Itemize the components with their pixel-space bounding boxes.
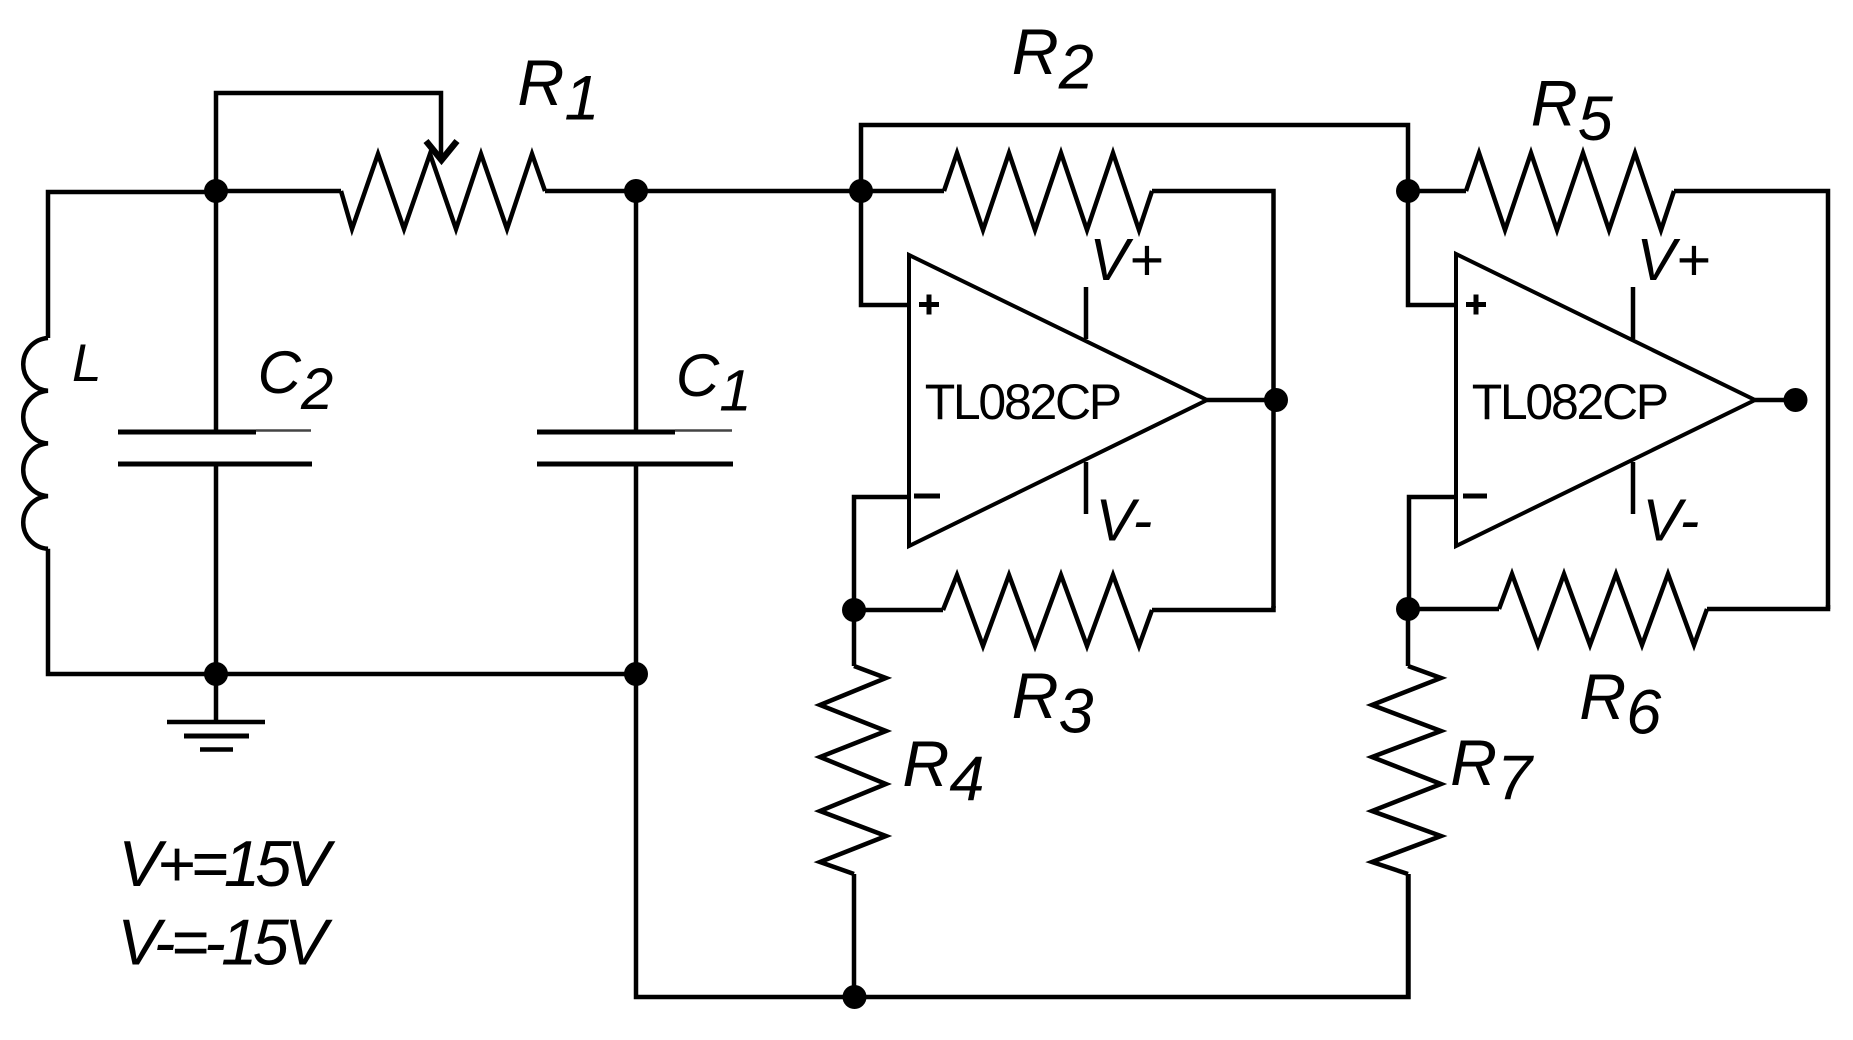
svg-text:TL082CP: TL082CP <box>1472 374 1667 430</box>
resistor R2 zigzag <box>944 153 1152 230</box>
op-amp U1 triangle <box>909 255 1207 546</box>
node E junction dot <box>849 179 873 203</box>
wire bottom rail from node D to R7 <box>636 674 1409 997</box>
wire node F to R4 top lead <box>852 610 857 666</box>
op-amp U2 V- pin <box>1631 462 1636 514</box>
capacitor C2 top plate <box>118 430 256 435</box>
svg-text:V-: V- <box>1643 488 1700 554</box>
wire op-amp U2 output <box>1755 398 1790 403</box>
wire R6 right lead to right column <box>1707 605 1828 609</box>
wire op-amp U1 output <box>1207 398 1274 403</box>
svg-text:R7: R7 <box>1450 726 1534 814</box>
resistor R6 zigzag <box>1499 574 1707 645</box>
resistor R4 zigzag <box>820 666 886 874</box>
op-amp U2 output dot <box>1784 388 1808 412</box>
resistor R1 zigzag <box>341 154 545 229</box>
bottom rail junction dot <box>843 985 867 1009</box>
wire op-amp U2 inverting input to node G <box>1409 497 1456 609</box>
wire node E to op-amp U1 non-inverting input <box>861 191 909 305</box>
capacitor C2 bottom lead <box>214 466 219 674</box>
ground symbol bar 2 <box>184 734 249 739</box>
node B ground junction dot <box>204 662 228 686</box>
resistor R3 zigzag <box>943 575 1152 646</box>
node C junction dot <box>624 179 648 203</box>
svg-text:L: L <box>72 334 101 393</box>
wire R2 right lead and output column of op-amp U1 <box>1152 191 1274 608</box>
ground symbol bar 3 <box>200 747 233 752</box>
capacitor C1 top plate <box>537 430 675 435</box>
node G junction dot <box>1396 597 1420 621</box>
svg-text:C2: C2 <box>258 339 334 422</box>
wire node G to R7 top lead <box>1406 609 1411 666</box>
ground symbol stem <box>214 674 219 722</box>
svg-text:V+=15V: V+=15V <box>118 827 336 900</box>
svg-text:R5: R5 <box>1531 66 1614 153</box>
wire node G to R6 left lead <box>1408 607 1499 612</box>
capacitor C1 bottom plate <box>537 462 733 467</box>
svg-text:R4: R4 <box>902 727 984 815</box>
op-amp U2 plus input sign <box>1466 295 1486 315</box>
wire node C to node E <box>636 189 861 194</box>
op-amp U1 V- pin <box>1084 462 1089 514</box>
svg-text:V+: V+ <box>1090 227 1164 293</box>
svg-text:C1: C1 <box>676 342 752 424</box>
rheostat wiper arrow of R1 <box>426 141 457 160</box>
ground symbol bar 1 <box>167 720 265 725</box>
op-amp U2 minus input sign <box>1463 494 1487 499</box>
wire R5 right lead and right feedback column of op-amp U2 <box>1674 191 1828 609</box>
op-amp U1 minus input sign <box>914 494 940 499</box>
node H junction dot <box>1396 179 1420 203</box>
svg-text:V+: V+ <box>1637 227 1711 293</box>
svg-text:V-=-15V: V-=-15V <box>117 906 333 979</box>
capacitor C1 top plate thin extension <box>675 429 732 432</box>
capacitor C1 bottom lead <box>634 466 639 674</box>
svg-text:V-: V- <box>1096 488 1153 554</box>
wire node E to R2 left lead <box>861 189 944 194</box>
op-amp U2 triangle <box>1456 254 1755 546</box>
op-amp U1 V+ pin <box>1084 287 1089 339</box>
svg-text:R2: R2 <box>1012 15 1094 103</box>
wire top-left loop from node A to R1 wiper <box>216 93 441 191</box>
wire node F to R3 left lead <box>854 608 943 613</box>
svg-text:R6: R6 <box>1579 660 1662 748</box>
wire feedback top loop node E to node H <box>861 125 1408 191</box>
op-amp U2 V+ pin <box>1631 287 1636 339</box>
wire ground rail node B to node D <box>216 672 636 677</box>
inductor L <box>23 338 48 549</box>
capacitor C1 top lead <box>634 191 639 430</box>
wire R7 bottom lead to bottom rail <box>1406 874 1411 997</box>
node A junction dot <box>204 179 228 203</box>
wire node A to left rail and down to inductor <box>48 192 216 338</box>
capacitor C2 top lead <box>214 191 219 430</box>
wire op-amp U1 inverting input to node F <box>854 497 909 610</box>
svg-text:TL082CP: TL082CP <box>925 374 1120 430</box>
svg-text:R1: R1 <box>517 46 599 134</box>
wire node A to R1 left lead <box>216 189 341 194</box>
op-amp U1 plus input sign <box>919 295 939 315</box>
wire node H to R5 left lead <box>1408 189 1466 194</box>
wire node H to op-amp U2 non-inverting input <box>1408 191 1456 305</box>
capacitor C2 top plate thin extension <box>256 429 311 432</box>
wire R3 right lead to output column <box>1152 606 1274 610</box>
wire R4 bottom lead to bottom rail <box>852 874 857 997</box>
svg-text:R3: R3 <box>1012 659 1094 747</box>
op-amp U1 output junction dot <box>1264 388 1288 412</box>
resistor R5 zigzag <box>1466 153 1674 230</box>
wire inductor bottom to ground rail <box>48 549 216 674</box>
wire R1 right lead to node C <box>545 189 636 194</box>
capacitor C2 bottom plate <box>118 462 312 467</box>
resistor R7 zigzag <box>1372 666 1441 874</box>
node D junction dot <box>624 662 648 686</box>
node F junction dot <box>842 598 866 622</box>
